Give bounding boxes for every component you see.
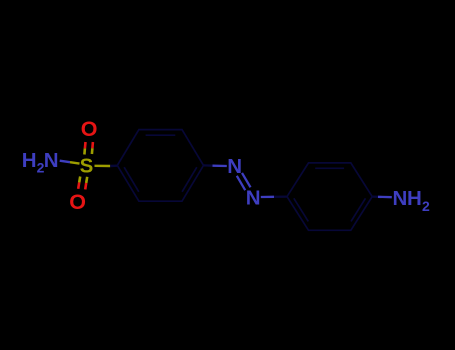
svg-text:N: N — [227, 155, 242, 178]
svg-text:O: O — [69, 190, 86, 214]
svg-text:O: O — [81, 117, 98, 141]
svg-text:N: N — [392, 187, 407, 210]
svg-text:N: N — [246, 187, 261, 210]
svg-text:2: 2 — [422, 198, 430, 214]
svg-text:S: S — [80, 154, 94, 177]
svg-text:N: N — [44, 149, 59, 172]
svg-text:H: H — [22, 149, 37, 172]
svg-text:H: H — [407, 187, 422, 210]
